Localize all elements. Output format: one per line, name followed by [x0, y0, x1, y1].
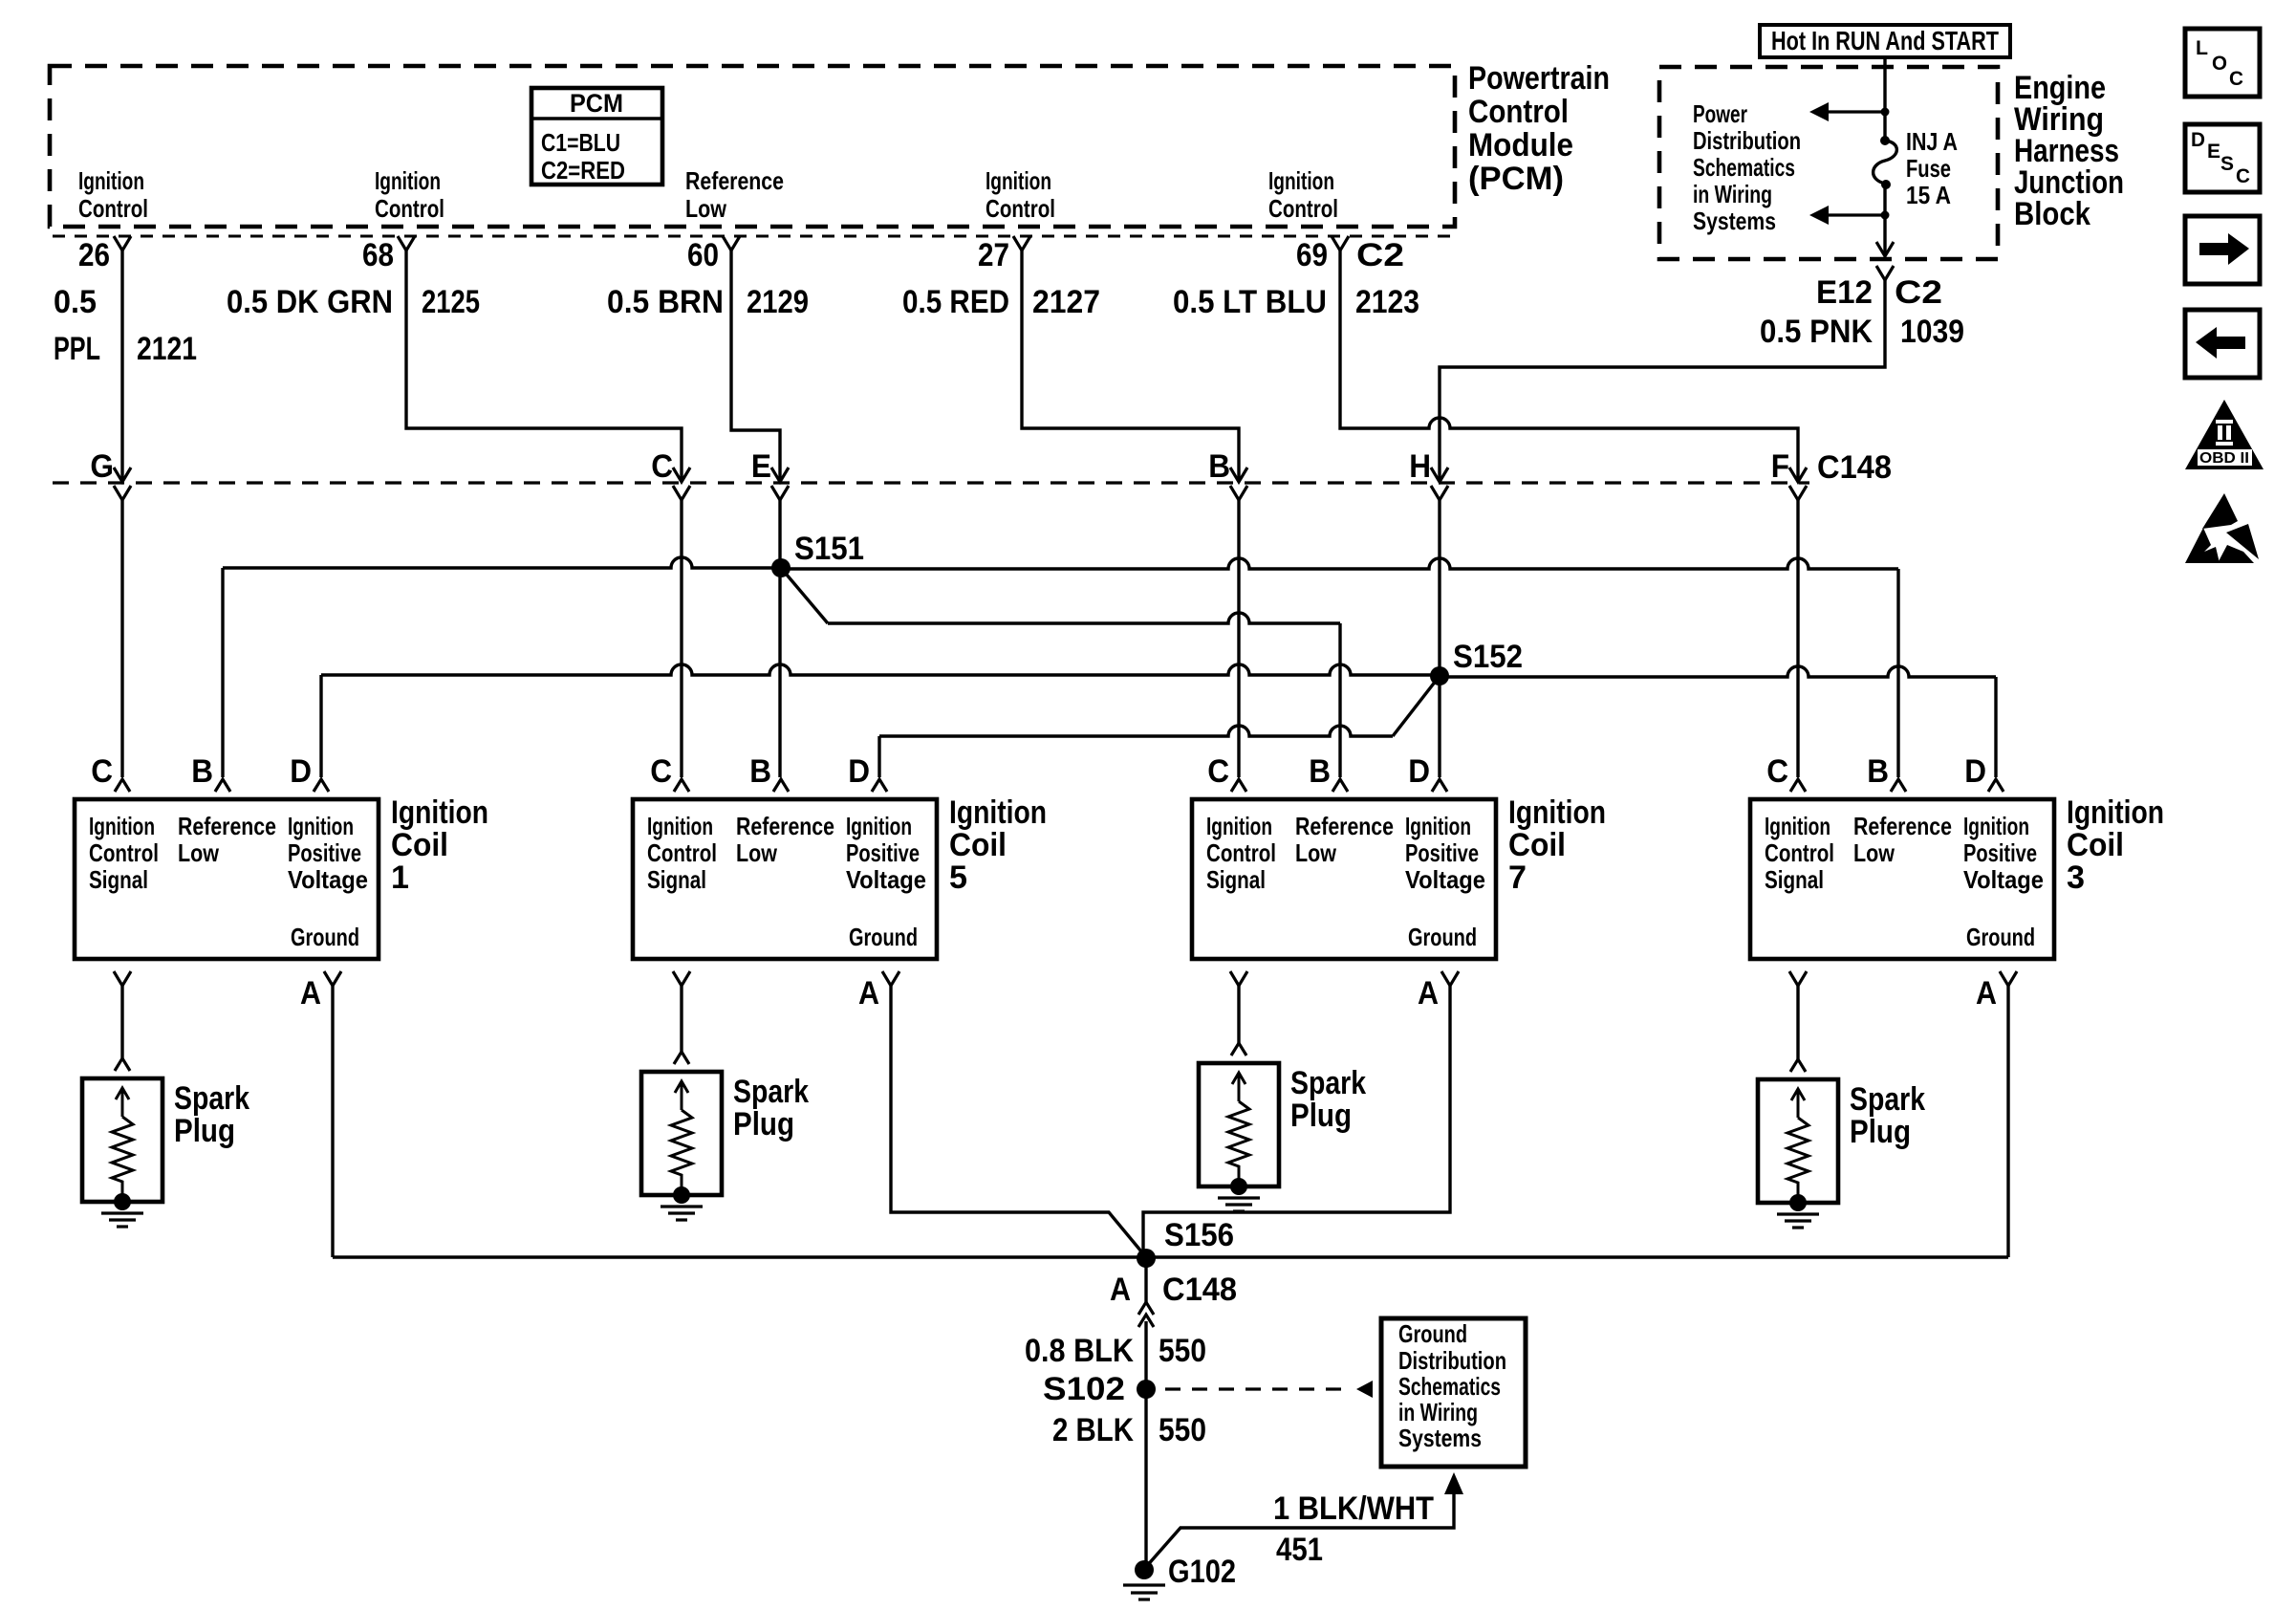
spark plug (coil 7) resistor: [1228, 1101, 1249, 1184]
svg-text:F: F: [1771, 448, 1789, 485]
wire coil 1 pin A to S156 rail: [331, 986, 334, 1257]
svg-text:G: G: [90, 448, 114, 485]
svg-text:Plug: Plug: [1290, 1098, 1352, 1134]
svg-text:550: 550: [1159, 1333, 1206, 1369]
svg-text:2129: 2129: [747, 284, 809, 320]
spark plug 1 boot connector: [115, 1058, 130, 1071]
wire 0.8 BLK 550 (C148 A to S102): [1144, 1321, 1147, 1389]
ignition coil 3 box: [1750, 799, 2054, 959]
svg-text:C: C: [650, 753, 672, 790]
svg-text:0.5 DK GRN: 0.5 DK GRN: [227, 284, 393, 320]
svg-text:Ignition: Ignition: [949, 794, 1047, 831]
svg-text:Low: Low: [1853, 838, 1895, 867]
svg-text:C: C: [2229, 68, 2243, 90]
svg-text:0.8 BLK: 0.8 BLK: [1025, 1333, 1134, 1369]
svg-text:1: 1: [391, 859, 409, 896]
coil 3 pin A bottom connector: [2000, 971, 2017, 986]
feed wire into junction block: [1883, 57, 1886, 140]
connector C148 pin G: [114, 468, 131, 482]
svg-text:Ignition: Ignition: [2067, 794, 2164, 831]
wire coil 5 to spark plug: [680, 986, 682, 1053]
svg-text:S156: S156: [1164, 1217, 1234, 1253]
svg-text:Distribution: Distribution: [1693, 126, 1801, 155]
svg-text:S151: S151: [794, 531, 864, 567]
svg-text:451: 451: [1276, 1532, 1323, 1568]
icon forward arrow box: [2185, 216, 2260, 284]
PCM pin 69 connector: [1332, 236, 1349, 250]
spark plug (coil 7) box: [1199, 1063, 1279, 1186]
svg-text:Ignition: Ignition: [1765, 812, 1830, 840]
coil 7 pin C bottom connector: [1230, 971, 1247, 986]
svg-text:Systems: Systems: [1693, 207, 1776, 235]
svg-text:Plug: Plug: [733, 1106, 794, 1142]
connector C148 dashed line: [53, 481, 1809, 484]
svg-text:B: B: [1208, 448, 1230, 485]
svg-text:2123: 2123: [1355, 284, 1419, 320]
svg-text:2127: 2127: [1032, 284, 1100, 320]
wire 0.5 LT BLU 2123 (PCM 69 to C148 F): [1340, 250, 1798, 481]
coil 5 pin A bottom connector: [882, 971, 899, 986]
junction node upper: [1881, 108, 1890, 117]
svg-text:D: D: [1408, 753, 1430, 790]
svg-text:C2=RED: C2=RED: [541, 156, 625, 185]
coil 1 pin A bottom connector: [324, 971, 341, 986]
wire 0.5 RED 2127 (PCM 27 to C148 B): [1022, 250, 1239, 481]
wire S151 branch to coil 7 pin B: [781, 568, 828, 623]
svg-text:Voltage: Voltage: [1963, 865, 2044, 894]
spark plug 3 boot connector: [1790, 1059, 1806, 1072]
PCM legend box: [531, 88, 662, 185]
wire coil 3 pin A down to rail: [2006, 986, 2009, 1257]
spark plug (coil 5) resistor: [671, 1110, 692, 1192]
spark plug (coil 5) box: [641, 1072, 722, 1195]
reference arrow to power distribution (upper): [1826, 110, 1885, 113]
svg-text:C148: C148: [1162, 1272, 1237, 1308]
connector C148 pin H: [1431, 468, 1448, 482]
wire coil 3 to spark plug: [1796, 986, 1799, 1060]
svg-text:Positive: Positive: [1405, 838, 1479, 867]
svg-text:H: H: [1409, 448, 1431, 485]
svg-text:Schematics: Schematics: [1398, 1372, 1501, 1401]
svg-text:Plug: Plug: [174, 1113, 235, 1149]
svg-text:Low: Low: [178, 838, 220, 867]
svg-text:B: B: [749, 753, 771, 790]
svg-text:Control: Control: [1206, 838, 1276, 867]
svg-text:Ignition: Ignition: [1405, 812, 1471, 840]
spark plug (coil 3) resistor: [1787, 1118, 1809, 1200]
svg-text:26: 26: [78, 237, 110, 273]
wire C148 F down to coil 3 pin C: [1796, 498, 1799, 777]
svg-text:Spark: Spark: [174, 1080, 249, 1117]
svg-text:Control: Control: [647, 838, 717, 867]
svg-text:Coil: Coil: [1508, 827, 1566, 863]
svg-text:A: A: [1418, 975, 1439, 1012]
svg-text:C: C: [2236, 165, 2250, 187]
coil 1 pin D connector: [314, 779, 329, 792]
icon back arrow box: [2185, 310, 2260, 378]
svg-text:S152: S152: [1453, 639, 1523, 675]
spark plug (coil 5) ground symbol: [661, 1205, 703, 1207]
svg-text:0.5 BRN: 0.5 BRN: [607, 284, 724, 320]
svg-text:Low: Low: [736, 838, 778, 867]
coil 1 pin B connector: [215, 779, 230, 792]
reference arrow to power distribution (lower): [1826, 213, 1885, 216]
PCM connector face line C1/C2: [53, 235, 1453, 238]
svg-text:Spark: Spark: [1290, 1065, 1366, 1101]
svg-text:Reference: Reference: [685, 166, 784, 195]
svg-text:D: D: [2191, 129, 2205, 151]
svg-text:L: L: [2196, 37, 2208, 59]
svg-text:C1=BLU: C1=BLU: [541, 128, 620, 157]
svg-text:68: 68: [362, 237, 394, 273]
spark plug (coil 3) arrow: [1797, 1091, 1800, 1118]
svg-text:Positive: Positive: [846, 838, 920, 867]
svg-text:(PCM): (PCM): [1468, 161, 1564, 197]
svg-text:Ignition: Ignition: [1268, 166, 1334, 195]
svg-text:550: 550: [1159, 1412, 1206, 1448]
svg-text:D: D: [290, 753, 312, 790]
svg-text:15 A: 15 A: [1906, 181, 1951, 209]
svg-text:C: C: [651, 448, 673, 485]
wire S152 to coil 3 pin D: [1440, 666, 1996, 677]
PCM pin 27 connector: [1013, 236, 1030, 250]
svg-text:Reference: Reference: [736, 812, 834, 840]
svg-text:1 BLK/WHT: 1 BLK/WHT: [1273, 1490, 1434, 1527]
coil 7 pin B connector: [1332, 779, 1348, 792]
svg-text:Control: Control: [1268, 194, 1338, 223]
svg-text:Ignition: Ignition: [78, 166, 144, 195]
svg-text:Systems: Systems: [1398, 1424, 1482, 1452]
wire 0.5 PPL 2121 (PCM 26 to C148 G): [120, 250, 123, 481]
wire below fuse: [1883, 185, 1886, 256]
icon LOC box: [2185, 29, 2260, 97]
svg-text:A: A: [300, 975, 321, 1012]
wire C148 H down through S152 to coil 7 pin D: [1438, 498, 1440, 777]
svg-text:Signal: Signal: [1765, 865, 1824, 894]
svg-text:Positive: Positive: [1963, 838, 2037, 867]
ignition coil 7 box: [1192, 799, 1496, 959]
svg-text:INJ A: INJ A: [1906, 127, 1958, 156]
svg-text:E: E: [751, 448, 771, 485]
svg-text:O: O: [2212, 53, 2227, 75]
svg-text:Coil: Coil: [2067, 827, 2124, 863]
svg-text:Power: Power: [1693, 99, 1747, 128]
coil 7 pin A bottom connector: [1441, 971, 1459, 986]
svg-text:C: C: [91, 753, 113, 790]
spark plug (coil 7) ground symbol: [1218, 1196, 1260, 1199]
wire coil 7 pin A to S156: [1143, 986, 1450, 1257]
coil 5 pin D connector: [872, 779, 887, 792]
splice S151: [771, 558, 791, 577]
svg-text:Block: Block: [2014, 196, 2090, 232]
connector C148 pin E: [771, 468, 789, 482]
spark plug (coil 3) box: [1758, 1079, 1838, 1203]
svg-text:Ignition: Ignition: [375, 166, 441, 195]
spark plug (coil 7) arrow: [1238, 1075, 1241, 1101]
svg-text:Spark: Spark: [1850, 1081, 1925, 1118]
coil 3 pin C connector: [1790, 779, 1806, 792]
coil 3 pin D connector: [1988, 779, 2004, 792]
coil 7 pin D connector: [1432, 779, 1447, 792]
svg-text:Voltage: Voltage: [288, 865, 368, 894]
svg-text:B: B: [1309, 753, 1331, 790]
svg-text:D: D: [848, 753, 870, 790]
wire coil 1 pin D to S152: [319, 675, 322, 777]
wire S152 branch to coil 5 pin D: [1393, 676, 1440, 736]
svg-text:2121: 2121: [137, 331, 197, 367]
svg-text:A: A: [858, 975, 879, 1012]
wire 0.5 BRN 2129 (PCM 60 to C148 E): [731, 250, 780, 481]
ignition coil 5 box: [633, 799, 937, 959]
spark plug (coil 1) resistor: [112, 1117, 133, 1199]
svg-text:Ground: Ground: [849, 923, 918, 951]
svg-text:Hot In RUN And START: Hot In RUN And START: [1771, 26, 1999, 55]
spark plug (coil 5) terminal node: [673, 1186, 690, 1204]
wire S151 to coil 3 pin B: [781, 558, 1898, 569]
svg-text:Reference: Reference: [1853, 812, 1952, 840]
svg-text:Reference: Reference: [1295, 812, 1394, 840]
coil 3 pin C bottom connector: [1789, 971, 1807, 986]
svg-text:Low: Low: [685, 194, 727, 223]
svg-text:0.5: 0.5: [54, 284, 97, 320]
junction node lower: [1881, 211, 1890, 220]
wire S151 to coil 1 pin B: [223, 557, 781, 568]
svg-text:7: 7: [1508, 859, 1527, 896]
svg-text:Signal: Signal: [647, 865, 706, 894]
svg-text:Signal: Signal: [1206, 865, 1266, 894]
svg-text:Ignition: Ignition: [647, 812, 713, 840]
svg-text:B: B: [191, 753, 213, 790]
ground G102 node: [1135, 1560, 1154, 1579]
coil 5 pin C bottom connector: [673, 971, 690, 986]
PCM pin 26 connector: [114, 236, 131, 250]
svg-text:Plug: Plug: [1850, 1114, 1911, 1150]
svg-text:E: E: [2207, 141, 2220, 163]
spark plug (coil 7) terminal node: [1230, 1178, 1247, 1195]
connector C148 pin B: [1230, 468, 1247, 482]
svg-text:A: A: [1110, 1272, 1131, 1308]
svg-text:5: 5: [949, 859, 967, 896]
svg-text:Ignition: Ignition: [986, 166, 1051, 195]
connector C148 pin A (in-line): [1138, 1302, 1154, 1315]
svg-text:S102: S102: [1043, 1371, 1125, 1407]
svg-text:Voltage: Voltage: [846, 865, 926, 894]
arrow into ground distribution box: [1444, 1472, 1463, 1494]
svg-text:Fuse: Fuse: [1906, 154, 1951, 183]
svg-text:Control: Control: [78, 194, 148, 223]
svg-text:Powertrain: Powertrain: [1468, 60, 1610, 97]
spark plug (coil 3) terminal node: [1789, 1194, 1807, 1211]
wire coil 5 pin A to S156: [891, 986, 1146, 1257]
coil 5 pin C connector: [674, 779, 689, 792]
ignition coil 1 box: [75, 799, 379, 959]
svg-text:Ground: Ground: [1398, 1319, 1467, 1348]
svg-text:0.5 LT BLU: 0.5 LT BLU: [1173, 284, 1327, 320]
Engine Wiring Harness Junction Block dashed box: [1659, 67, 1998, 259]
svg-text:Control: Control: [986, 194, 1055, 223]
svg-text:Ignition: Ignition: [1963, 812, 2029, 840]
svg-text:Control: Control: [1468, 94, 1569, 130]
wire 0.5 DK GRN 2125 (PCM 68 to C148 C): [406, 250, 682, 481]
splice S102: [1137, 1380, 1156, 1399]
coil 1 pin C bottom connector: [114, 971, 131, 986]
svg-text:PCM: PCM: [570, 89, 623, 118]
spark plug 7 boot connector: [1231, 1043, 1246, 1055]
svg-text:C: C: [1207, 753, 1229, 790]
svg-text:Reference: Reference: [178, 812, 276, 840]
svg-text:C2: C2: [1895, 274, 1942, 311]
svg-text:Ignition: Ignition: [391, 794, 488, 831]
svg-text:S: S: [2220, 153, 2234, 175]
svg-text:2 BLK: 2 BLK: [1052, 1412, 1134, 1448]
wire C148 E down to splice S151 and coil 5 pin B: [778, 498, 781, 777]
svg-text:Control: Control: [375, 194, 444, 223]
svg-text:Voltage: Voltage: [1405, 865, 1485, 894]
spark plug (coil 1) box: [82, 1078, 162, 1202]
svg-text:Ignition: Ignition: [1206, 812, 1272, 840]
wire 0.5 PNK 1039 (E12 to C148 H): [1440, 280, 1885, 481]
svg-text:Ignition: Ignition: [846, 812, 912, 840]
Hot In RUN And START feed box: [1760, 25, 2010, 57]
icon ESD warning symbol: [2202, 493, 2238, 529]
wire C148 B down to coil 7 pin C: [1237, 498, 1240, 777]
connector C148 pin C: [673, 468, 690, 482]
svg-text:C2: C2: [1356, 237, 1404, 273]
reference dashed line S102 to ground distribution: [1165, 1387, 1346, 1390]
svg-text:27: 27: [978, 237, 1009, 273]
svg-text:Module: Module: [1468, 127, 1573, 163]
wire 2 BLK 550 (S102 to G102): [1144, 1389, 1147, 1569]
coil ground rail (S156 horizontal): [333, 1255, 2008, 1258]
PCM pin 60 connector: [723, 236, 740, 250]
svg-text:E12: E12: [1816, 274, 1873, 311]
PCM (Powertrain Control Module) dashed box: [50, 66, 1455, 227]
svg-text:69: 69: [1296, 237, 1328, 273]
junction block pin E12 connector: [1876, 266, 1894, 280]
coil 5 pin B connector: [773, 779, 789, 792]
svg-text:Ground: Ground: [1408, 923, 1477, 951]
svg-text:1039: 1039: [1900, 314, 1964, 350]
svg-text:A: A: [1976, 975, 1997, 1012]
svg-text:C: C: [1766, 753, 1788, 790]
wire coil 7 to spark plug: [1237, 986, 1240, 1044]
svg-text:B: B: [1867, 753, 1889, 790]
svg-text:Control: Control: [89, 838, 159, 867]
connector C148 pin F: [1789, 468, 1807, 482]
wire coil 1 to spark plug: [120, 986, 123, 1059]
svg-text:0.5 PNK: 0.5 PNK: [1760, 314, 1873, 350]
svg-text:D: D: [1964, 753, 1986, 790]
svg-text:0.5 RED: 0.5 RED: [902, 284, 1009, 320]
spark plug (coil 1) arrow: [121, 1090, 124, 1117]
spark plug (coil 1) terminal node: [114, 1193, 131, 1210]
svg-text:Positive: Positive: [288, 838, 361, 867]
svg-text:Ground: Ground: [1966, 923, 2035, 951]
ground G102 symbol: [1123, 1583, 1165, 1586]
wire S156 to connector C148 pin A: [1144, 1258, 1147, 1302]
svg-text:Ignition: Ignition: [288, 812, 354, 840]
splice S152: [1430, 666, 1449, 685]
svg-text:PPL: PPL: [54, 331, 100, 367]
svg-text:60: 60: [687, 237, 719, 273]
svg-text:Distribution: Distribution: [1398, 1346, 1506, 1375]
spark plug (coil 1) ground symbol: [101, 1211, 143, 1214]
spark plug (coil 3) ground symbol: [1777, 1212, 1819, 1215]
svg-text:in Wiring: in Wiring: [1693, 180, 1772, 208]
svg-text:Coil: Coil: [949, 827, 1007, 863]
svg-text:Spark: Spark: [733, 1074, 809, 1110]
svg-text:Ignition: Ignition: [1508, 794, 1606, 831]
spark plug 5 boot connector: [674, 1052, 689, 1064]
icon OBD II triangle: [2185, 400, 2264, 469]
svg-text:OBD II: OBD II: [2199, 450, 2249, 467]
wire C148 G down to coil 1 pin C: [120, 498, 123, 777]
junction block output arrow: [1876, 242, 1894, 256]
splice S156: [1137, 1249, 1156, 1268]
wire C148 C down to coil 5 pin C: [680, 498, 682, 777]
coil 1 pin C connector: [115, 779, 130, 792]
svg-text:Ground: Ground: [291, 923, 359, 951]
PCM pin 68 connector: [398, 236, 415, 250]
spark plug (coil 5) arrow: [681, 1083, 683, 1110]
svg-text:Ignition: Ignition: [89, 812, 155, 840]
svg-text:Schematics: Schematics: [1693, 153, 1795, 182]
svg-text:Coil: Coil: [391, 827, 448, 863]
svg-text:Low: Low: [1295, 838, 1337, 867]
wire 1 BLK/WHT 451 (G102 to ground distribution): [1145, 1491, 1454, 1568]
icon DESC box: [2185, 124, 2260, 192]
coil 3 pin B connector: [1891, 779, 1906, 792]
fuse INJ A 15 A: [1880, 136, 1890, 145]
svg-text:C148: C148: [1817, 449, 1892, 486]
Ground Distribution Schematics box: [1381, 1318, 1526, 1467]
svg-text:2125: 2125: [422, 284, 480, 320]
coil 7 pin C connector: [1231, 779, 1246, 792]
svg-text:Signal: Signal: [89, 865, 148, 894]
svg-text:G102: G102: [1168, 1554, 1236, 1590]
svg-text:3: 3: [2067, 859, 2085, 896]
svg-text:Control: Control: [1765, 838, 1834, 867]
svg-text:in Wiring: in Wiring: [1398, 1398, 1478, 1426]
